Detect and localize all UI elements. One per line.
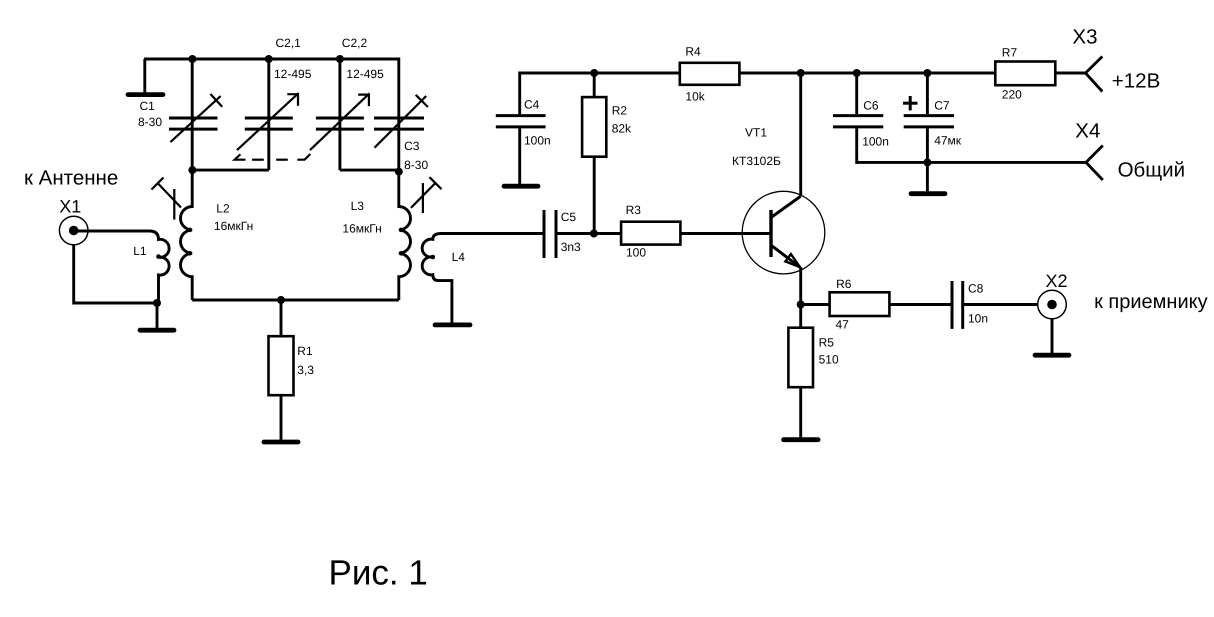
ground (below X2)	[1035, 353, 1069, 358]
svg-text:L4: L4	[452, 250, 466, 264]
svg-text:C7: C7	[934, 99, 950, 113]
connector X3 (fork)	[1072, 26, 1102, 92]
svg-text:16мкГн: 16мкГн	[342, 222, 381, 236]
svg-text:R1: R1	[297, 344, 313, 358]
capacitor C8 (10n)	[952, 281, 988, 329]
resistor R7 (220)	[995, 46, 1055, 102]
svg-text:Рис. 1: Рис. 1	[329, 554, 428, 593]
svg-text:8-30: 8-30	[404, 158, 428, 172]
node: junction R1 top	[277, 296, 285, 304]
wire top rail	[144, 58, 399, 61]
svg-text:L2: L2	[216, 202, 230, 216]
inductor L1 with wire from X1	[75, 231, 169, 303]
resistor R6 (47)	[830, 277, 890, 331]
svg-text:+12В: +12В	[1112, 69, 1160, 92]
capacitor C7 (47мк electrolytic)	[903, 73, 962, 147]
wire C7 bottom through common to ground	[926, 128, 929, 191]
node: junction R2 bottom / base line	[590, 230, 598, 238]
resistor R5 (510)	[788, 305, 839, 438]
connector X4 (fork)	[1075, 120, 1103, 180]
svg-text:C8: C8	[968, 282, 984, 296]
svg-text:220: 220	[1002, 87, 1022, 101]
svg-text:C2,2: C2,2	[342, 36, 368, 50]
wire C5 to base	[556, 232, 771, 235]
node: junction L1 bottom	[153, 299, 161, 307]
resistor R2 (82k)	[582, 73, 632, 234]
svg-text:12-495: 12-495	[346, 67, 384, 81]
svg-text:8-30: 8-30	[138, 115, 162, 129]
resistor R1 (3,3)	[269, 300, 315, 440]
svg-text:10k: 10k	[685, 90, 705, 104]
wire C2.2 bottom to C3 bottom	[340, 169, 399, 172]
svg-text:47: 47	[836, 317, 850, 331]
svg-text:КТ3102Б: КТ3102Б	[732, 154, 781, 168]
wire supply rail	[594, 72, 1085, 75]
svg-text:R3: R3	[626, 203, 642, 217]
svg-text:X4: X4	[1075, 120, 1100, 143]
svg-text:C5: C5	[561, 210, 577, 224]
svg-text:X2: X2	[1046, 271, 1068, 291]
svg-text:100: 100	[626, 245, 646, 259]
wire emitter row to C8	[801, 303, 952, 306]
ground (below L4)	[435, 322, 470, 327]
capacitor C1 (trimmer 8-30)	[138, 59, 222, 170]
node: top rail junction at C1	[188, 55, 196, 63]
adjustable core arrow of L3	[411, 177, 442, 213]
mechanical gang dashed link C2.1-C2.2	[235, 154, 311, 160]
node: junction supply/collector	[797, 69, 805, 77]
capacitor C6 (100n)	[833, 73, 889, 148]
svg-text:82k: 82k	[612, 121, 632, 135]
node: junction supply/R2	[590, 69, 598, 77]
svg-text:16мкГн: 16мкГн	[214, 219, 253, 233]
svg-text:к приемнику: к приемнику	[1094, 291, 1208, 313]
capacitor C2.1 (variable 12-495)	[237, 36, 312, 170]
capacitor C2.2 (variable 12-495)	[310, 36, 384, 170]
wire X2 to ground	[1051, 319, 1054, 353]
svg-text:100n: 100n	[524, 133, 551, 147]
connector X2	[1038, 271, 1068, 319]
wire common row C6-C7-X4	[857, 128, 1086, 162]
node: top rail junction at C2.1	[265, 55, 273, 63]
node: junction C7/common	[923, 158, 931, 166]
svg-text:R4: R4	[685, 45, 701, 59]
svg-text:510: 510	[819, 352, 839, 366]
capacitor C5 (3n3)	[544, 210, 581, 258]
adjustable core arrow of L2	[152, 178, 182, 220]
wire C1 bottom to C2.1 bottom	[192, 169, 269, 172]
resistor R4 (10k)	[680, 45, 740, 104]
ground (below C7)	[911, 191, 945, 196]
svg-text:VT1: VT1	[745, 125, 767, 139]
node: top rail junction at C2.2	[336, 55, 344, 63]
svg-text:100n: 100n	[862, 134, 889, 148]
wire collector to supply	[799, 73, 802, 196]
wire bottom rail of tank circuits	[192, 299, 399, 302]
svg-text:X3: X3	[1072, 26, 1097, 49]
transistor VT1 (КТ3102Б)	[732, 125, 825, 274]
node: junction emitter/R5/R6	[797, 301, 805, 309]
node: junction supply/C7	[923, 69, 931, 77]
ground (below R5)	[784, 437, 819, 442]
svg-text:L1: L1	[133, 244, 147, 258]
ground (top-left near C1)	[128, 59, 163, 95]
svg-text:X1: X1	[59, 197, 81, 217]
svg-text:3n3: 3n3	[561, 240, 581, 254]
svg-text:L3: L3	[351, 199, 365, 213]
svg-text:C4: C4	[524, 98, 540, 112]
inductor L2 (16мкГн)	[181, 170, 254, 300]
node: junction C3 bottom / L3 top	[395, 168, 403, 176]
inductor L3 (16мкГн)	[342, 172, 410, 300]
svg-text:C6: C6	[863, 99, 879, 113]
node: junction supply/C6	[853, 69, 861, 77]
svg-text:10n: 10n	[968, 311, 988, 325]
resistor R3 (100)	[621, 203, 680, 259]
capacitor C4 (100n)	[496, 73, 594, 184]
svg-text:R2: R2	[612, 103, 628, 117]
node: junction C1 bottom / L2 top	[188, 166, 196, 174]
svg-text:12-495: 12-495	[274, 67, 312, 81]
svg-text:R5: R5	[819, 335, 835, 349]
svg-text:C3: C3	[404, 139, 420, 153]
svg-text:Общий: Общий	[1118, 159, 1185, 182]
ground (below C4)	[504, 184, 538, 189]
wire emitter down	[799, 267, 802, 304]
wire X1 shield to ground junction	[74, 245, 159, 303]
svg-text:R7: R7	[1002, 46, 1018, 60]
svg-text:C1: C1	[140, 99, 156, 113]
wire C8 to X2	[963, 303, 1038, 306]
svg-text:R6: R6	[836, 277, 852, 291]
svg-text:к Антенне: к Антенне	[24, 167, 118, 190]
svg-text:C2,1: C2,1	[276, 36, 302, 50]
inductor L4	[422, 234, 544, 323]
ground (below R1)	[264, 440, 298, 445]
svg-text:47мк: 47мк	[934, 133, 962, 147]
ground (below L1/X1)	[140, 303, 174, 330]
svg-text:3,3: 3,3	[297, 363, 314, 377]
connector X1	[59, 197, 88, 245]
capacitor C3 (trimmer 8-30)	[374, 58, 428, 173]
